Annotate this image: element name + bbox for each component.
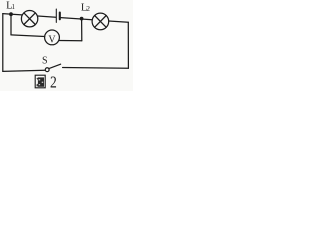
- junction node dot right: [80, 17, 84, 21]
- svg-text:1: 1: [12, 3, 16, 11]
- junction node dot left: [9, 12, 13, 16]
- lamp L2: [92, 13, 109, 30]
- svg-text:V: V: [48, 34, 56, 45]
- wire L2 to top-right corner: [109, 21, 129, 22]
- svg-text:S: S: [42, 56, 48, 67]
- wire top-left segment: [3, 14, 22, 15]
- voltmeter V circle: [45, 30, 60, 45]
- wire L1 to battery: [38, 16, 56, 17]
- svg-text:2: 2: [86, 4, 90, 13]
- wire right vertical side: [127, 22, 129, 68]
- wire bottom-left to switch: [3, 70, 45, 71]
- wire riser up to right junction: [81, 19, 83, 41]
- wire voltmeter to right riser: [59, 40, 82, 42]
- svg-text:2: 2: [50, 73, 57, 91]
- caption character tu (figure) drawn: [35, 75, 45, 88]
- wire voltmeter row left horizontal: [11, 35, 45, 37]
- wire junction left down to voltmeter row: [10, 14, 12, 35]
- switch S blade: [49, 64, 61, 68]
- wire battery to L2: [61, 18, 92, 20]
- switch S pivot: [45, 68, 49, 72]
- lamp L1: [21, 11, 37, 27]
- wire left vertical side: [2, 14, 4, 72]
- wire switch to bottom-right: [63, 67, 129, 70]
- battery cell: [56, 9, 60, 22]
